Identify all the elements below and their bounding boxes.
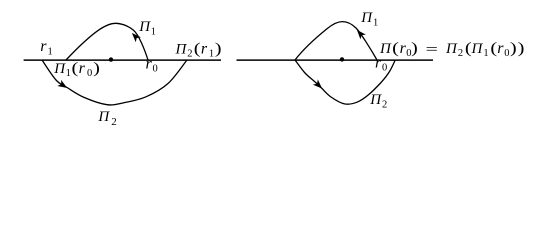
svg-text:1: 1	[209, 48, 214, 59]
svg-text:): )	[93, 60, 100, 77]
svg-text:): )	[411, 40, 418, 57]
svg-text:Π: Π	[379, 41, 392, 57]
svg-text:r: r	[40, 38, 47, 55]
right fixed point dot	[340, 57, 344, 61]
svg-text:r: r	[201, 40, 208, 57]
svg-text:(: (	[72, 60, 79, 77]
arrow on left lower curve	[57, 80, 69, 91]
svg-text:): )	[510, 40, 517, 57]
svg-text:r: r	[79, 60, 86, 77]
svg-text:Π: Π	[97, 109, 110, 125]
left lower curve (Pi2 trajectory)	[42, 60, 187, 105]
svg-text:(: (	[392, 40, 399, 57]
svg-text:Π: Π	[138, 19, 151, 35]
svg-text:): )	[215, 40, 222, 57]
arrow on left upper arc	[129, 30, 141, 42]
svg-text:2: 2	[382, 100, 387, 111]
svg-text:0: 0	[153, 63, 158, 74]
svg-text:1: 1	[48, 47, 53, 58]
left upper arc (Pi1 trajectory)	[66, 23, 148, 60]
svg-text:2: 2	[187, 48, 192, 59]
svg-text:Π: Π	[360, 10, 373, 26]
svg-text:0: 0	[382, 63, 387, 74]
arrow on right upper arc	[354, 27, 366, 39]
svg-text:=: =	[426, 42, 438, 58]
right lower curve (Pi2 trajectory)	[295, 60, 395, 104]
svg-text:Π: Π	[369, 92, 382, 108]
svg-text:): )	[518, 40, 525, 57]
svg-text:r: r	[497, 40, 504, 57]
svg-text:1: 1	[483, 48, 488, 59]
left fixed point dot	[109, 57, 113, 61]
svg-text:1: 1	[151, 27, 156, 38]
right horizontal line	[237, 59, 434, 61]
svg-text:(: (	[490, 40, 497, 57]
svg-text:r: r	[146, 55, 153, 72]
svg-text:2: 2	[111, 116, 117, 128]
svg-text:Π: Π	[445, 41, 458, 57]
svg-text:Π: Π	[471, 41, 484, 57]
svg-text:(: (	[194, 40, 201, 57]
right upper arc (Pi1 trajectory)	[295, 22, 377, 60]
svg-text:r: r	[375, 55, 382, 72]
left horizontal line	[24, 59, 221, 61]
svg-text:Π: Π	[53, 61, 66, 77]
svg-text:Π: Π	[175, 41, 188, 57]
svg-text:0: 0	[87, 68, 92, 79]
arrow on right lower curve	[313, 79, 325, 91]
svg-text:2: 2	[458, 48, 463, 59]
svg-text:0: 0	[504, 48, 509, 59]
svg-text:1: 1	[373, 18, 378, 29]
svg-text:1: 1	[66, 68, 71, 79]
